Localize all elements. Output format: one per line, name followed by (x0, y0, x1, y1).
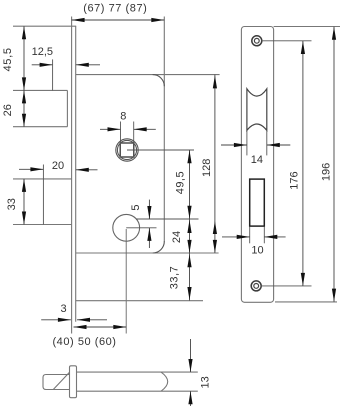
dim 33,7 line (189, 253, 191, 301)
dim 24 line (189, 219, 191, 253)
dim 49,5 line (189, 150, 191, 219)
dim 14 left tick (246, 131, 248, 155)
screw hole top (252, 36, 262, 46)
latch opening (247, 89, 267, 131)
latch bolt (43, 375, 70, 390)
dim 49,5 bottom arrow (187, 206, 191, 219)
inner detail line y=178.9 (13, 178, 72, 180)
dim 26 bottom arrow (22, 114, 26, 127)
dim 5 down arrow (147, 206, 151, 219)
dim 33 bottom arrow (22, 212, 26, 225)
dim 10 right arrow (264, 236, 285, 238)
case bottom edge + extension (76, 252, 219, 254)
faceplate right edge line (75, 26, 77, 322)
screw hole bottom (251, 281, 261, 291)
dim 196 line (333, 27, 335, 302)
dim 3 arrow (58, 318, 71, 322)
dim (67) 77 (87) right arrow (151, 18, 164, 22)
dim 33,7 top arrow (187, 254, 191, 267)
dim 20 arrow (30, 167, 43, 171)
dim 14 right arrow (267, 144, 291, 146)
inner detail connector x=67.4 (66, 90, 68, 126)
bottom reference line y=300.7 (76, 300, 203, 302)
latch bolt bevel line (54, 372, 70, 389)
dim 5 upper line (148, 200, 150, 219)
dim 13 up arrow (188, 391, 192, 404)
dim 14 right tick (266, 131, 268, 155)
svg-text:8: 8 (120, 111, 126, 123)
deadbolt opening (250, 179, 265, 226)
svg-text:10: 10 (251, 245, 263, 257)
dim 8 left tick (120, 122, 122, 144)
cylinder centre vertical extension line (125, 229, 127, 334)
dim 12,5 tick (52, 59, 54, 90)
dim 196 top arrow (332, 27, 336, 40)
dim 176 line (302, 41, 304, 286)
follower hub circle (116, 139, 138, 161)
svg-text:176: 176 (289, 171, 301, 189)
dim 128 bottom arrow (213, 240, 217, 253)
faceplate left edge line (71, 17, 73, 334)
dim 45,5 top arrow (22, 26, 26, 39)
dim 12,5 arrow (40, 63, 53, 67)
dim 49,5 top arrow (187, 150, 191, 163)
dim 12,5 opposing arrow at faceplate (76, 64, 100, 66)
svg-text:14: 14 (251, 154, 263, 166)
line C (cylinder centre line) (126, 227, 156, 229)
dim 26 line (23, 90, 25, 126)
svg-text:3: 3 (60, 303, 66, 315)
svg-text:20: 20 (52, 160, 64, 172)
faceplate top extension line (274, 26, 340, 28)
dim 26 top arrow (22, 90, 26, 103)
faceplate top edge + extension line (13, 25, 76, 27)
svg-text:128: 128 (201, 159, 213, 177)
dim 8 left arrow (100, 128, 121, 130)
dim 33,7 bottom arrow (187, 287, 191, 300)
case top edge + extension (76, 74, 220, 76)
case rounded corner bottom-right (153, 241, 165, 253)
follower square spindle hole (120, 143, 134, 157)
dim 3 tail line (41, 319, 71, 321)
svg-text:12,5: 12,5 (32, 46, 53, 58)
dim 14 left arrow (221, 144, 247, 146)
dim 20 tail line (19, 168, 43, 170)
dim 10 left arrow (222, 236, 250, 238)
dim 10 right tick (263, 227, 265, 244)
faceplate flange (70, 366, 77, 398)
svg-text:24: 24 (171, 231, 183, 243)
dim 5 up arrow below centre line (148, 228, 150, 248)
dim (67) 77 (87) left arrow (72, 18, 85, 22)
dim 33 top arrow (22, 179, 26, 192)
svg-text:(67) 77 (87): (67) 77 (87) (83, 3, 147, 15)
dim 176 bottom arrow (301, 273, 305, 286)
svg-text:45,5: 45,5 (2, 47, 14, 71)
screw hole top leader line (261, 40, 311, 42)
case rounded corner top-right (153, 75, 165, 87)
dim 3 opposing arrow (77, 319, 107, 321)
inner detail line y=90.4 (13, 89, 67, 91)
faceplate outline (241, 27, 273, 303)
dim 196 bottom arrow (332, 289, 336, 302)
case bar bottom edge (77, 390, 198, 392)
break arc (161, 372, 168, 391)
svg-text:196: 196 (321, 163, 333, 181)
inner detail line y=126.7 (13, 126, 67, 128)
svg-text:13: 13 (200, 376, 212, 388)
dim 176 top arrow (301, 41, 305, 54)
svg-text:49,5: 49,5 (175, 171, 187, 194)
dim 45,5 bottom arrow (22, 77, 26, 90)
dim 8 right tick (133, 122, 135, 144)
dim 13 lower line (190, 391, 192, 406)
svg-text:33: 33 (6, 198, 18, 210)
svg-text:5: 5 (130, 205, 142, 211)
follower centre leader line (127, 149, 194, 151)
cylinder hole circle (113, 214, 140, 241)
dim 24 top arrow (points up) (187, 220, 191, 233)
dim (40) 50 (60) line (74, 326, 127, 328)
dim 13 upper line (190, 339, 192, 372)
dim 45,5 line (23, 26, 25, 90)
dim 12,5 tail line (32, 64, 53, 66)
dim 128 top arrow (213, 75, 217, 88)
svg-text:(40) 50 (60): (40) 50 (60) (52, 336, 116, 348)
dim 8 right arrow (134, 128, 156, 130)
dim 128 line (214, 75, 216, 253)
case right edge + extension up to top dim (163, 17, 165, 243)
dim 13 down arrow (188, 359, 192, 372)
dim (40) 50 (60) left arrow (74, 325, 87, 329)
dim 33 line (23, 179, 25, 225)
dim 10 left tick (249, 227, 251, 244)
svg-text:26: 26 (2, 104, 14, 116)
case bar top edge (77, 371, 198, 373)
svg-text:33,7: 33,7 (169, 266, 181, 289)
dim (40) 50 (60) right arrow (113, 325, 126, 329)
screw hole bottom leader line (261, 285, 312, 287)
faceplate bottom extension line (275, 301, 337, 303)
dim 24 bottom arrow (points down) (187, 240, 191, 253)
dim 128 mid up arrow (213, 221, 217, 234)
dim (67) 77 (87) line (72, 19, 165, 21)
inner detail line y=224.5 (13, 224, 72, 226)
dim 20 opposing arrow at faceplate (76, 169, 98, 171)
inner detail connector x=43.4 (also 20-dim tick) (42, 165, 44, 225)
line T (5-dim upper reference) (136, 218, 199, 220)
